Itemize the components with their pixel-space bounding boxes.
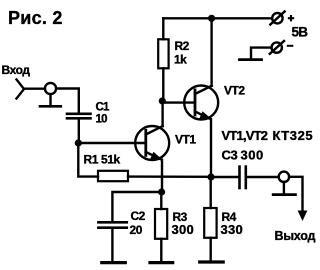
wire connector to C1 corner: [56, 89, 79, 113]
svg-text:КТ325: КТ325: [273, 128, 314, 143]
common bar (minus): [240, 58, 262, 61]
ground bar under R3: [150, 261, 173, 264]
node D junction dot (VT2 base tap): [159, 97, 166, 104]
node C junction dot: [158, 188, 165, 195]
ground bar under C2: [102, 261, 126, 264]
node B junction dot: [207, 173, 214, 180]
output arrow: [298, 211, 308, 222]
wire power rail: [163, 17, 272, 19]
wire VT2 collector up: [210, 18, 212, 85]
input connector circle: [45, 83, 56, 94]
input plug XS1: [17, 80, 25, 99]
svg-text:C3: C3: [222, 148, 238, 163]
resistor R3: [155, 209, 167, 239]
node A junction dot: [75, 139, 82, 146]
svg-text:R1 51k: R1 51k: [84, 153, 121, 167]
plus sign: [289, 16, 293, 20]
svg-text:Вход: Вход: [2, 63, 31, 77]
input shield lead: [49, 94, 51, 106]
wire minus terminal to common: [251, 48, 272, 59]
svg-text:330: 330: [221, 222, 244, 237]
wire node D to VT2 base: [162, 101, 194, 103]
terminal + (plus): [270, 12, 284, 25]
wire VT1 collector up: [161, 101, 163, 126]
wire input to connector: [24, 87, 45, 89]
wire R2 branch from rail: [162, 18, 164, 39]
wire C1 to node A: [78, 120, 80, 144]
svg-text:1k: 1k: [174, 53, 187, 67]
wire R4 to ground: [209, 238, 211, 261]
svg-text:300: 300: [241, 148, 264, 163]
wire C2 to ground: [111, 229, 113, 261]
svg-text:VT2: VT2: [224, 84, 245, 98]
input shield bar: [40, 105, 61, 108]
ground bar under R4: [200, 260, 224, 263]
wire node C to C2: [112, 192, 161, 221]
svg-text:R2: R2: [175, 39, 190, 53]
transistor VT2: [184, 86, 218, 120]
output connector circle: [279, 172, 289, 182]
wire VT2 emitter down: [210, 119, 212, 177]
svg-text:300: 300: [172, 222, 195, 237]
svg-text:VT1,VT2: VT1,VT2: [222, 128, 268, 143]
svg-text:VT1: VT1: [175, 133, 196, 147]
wire output to arrow: [289, 177, 302, 213]
svg-text:20: 20: [130, 223, 143, 237]
capacitor C1: [67, 114, 91, 119]
wire R2 to node D: [162, 68, 164, 101]
resistor R1: [98, 171, 128, 181]
wire R1 to node B: [128, 175, 211, 178]
svg-text:C2: C2: [131, 209, 146, 223]
wire C3 to output connector: [247, 176, 279, 178]
minus sign: [288, 45, 293, 47]
wire R3 to ground: [160, 239, 162, 261]
capacitor C2: [98, 222, 126, 227]
terminal - (minus): [270, 41, 284, 54]
wire node C to R3: [160, 192, 162, 209]
svg-text:Выход: Выход: [275, 229, 316, 243]
svg-text:10: 10: [96, 114, 108, 126]
transistor VT1: [135, 126, 169, 160]
svg-text:Рис. 2: Рис. 2: [8, 8, 63, 28]
output shield lead: [283, 182, 285, 194]
svg-text:C1: C1: [96, 102, 111, 114]
rail junction dot: [208, 15, 215, 22]
wire node B to R4: [209, 177, 211, 208]
wire node A to VT1 base: [78, 142, 144, 144]
wire VT1 emitter down: [161, 160, 163, 192]
output shield bar: [273, 193, 295, 196]
svg-text:5В: 5В: [292, 25, 309, 40]
capacitor C3: [240, 167, 246, 188]
wire node B to C3: [211, 176, 238, 178]
resistor R4: [204, 208, 216, 238]
resistor R2: [158, 39, 168, 68]
wire node A down to R1: [78, 143, 98, 177]
